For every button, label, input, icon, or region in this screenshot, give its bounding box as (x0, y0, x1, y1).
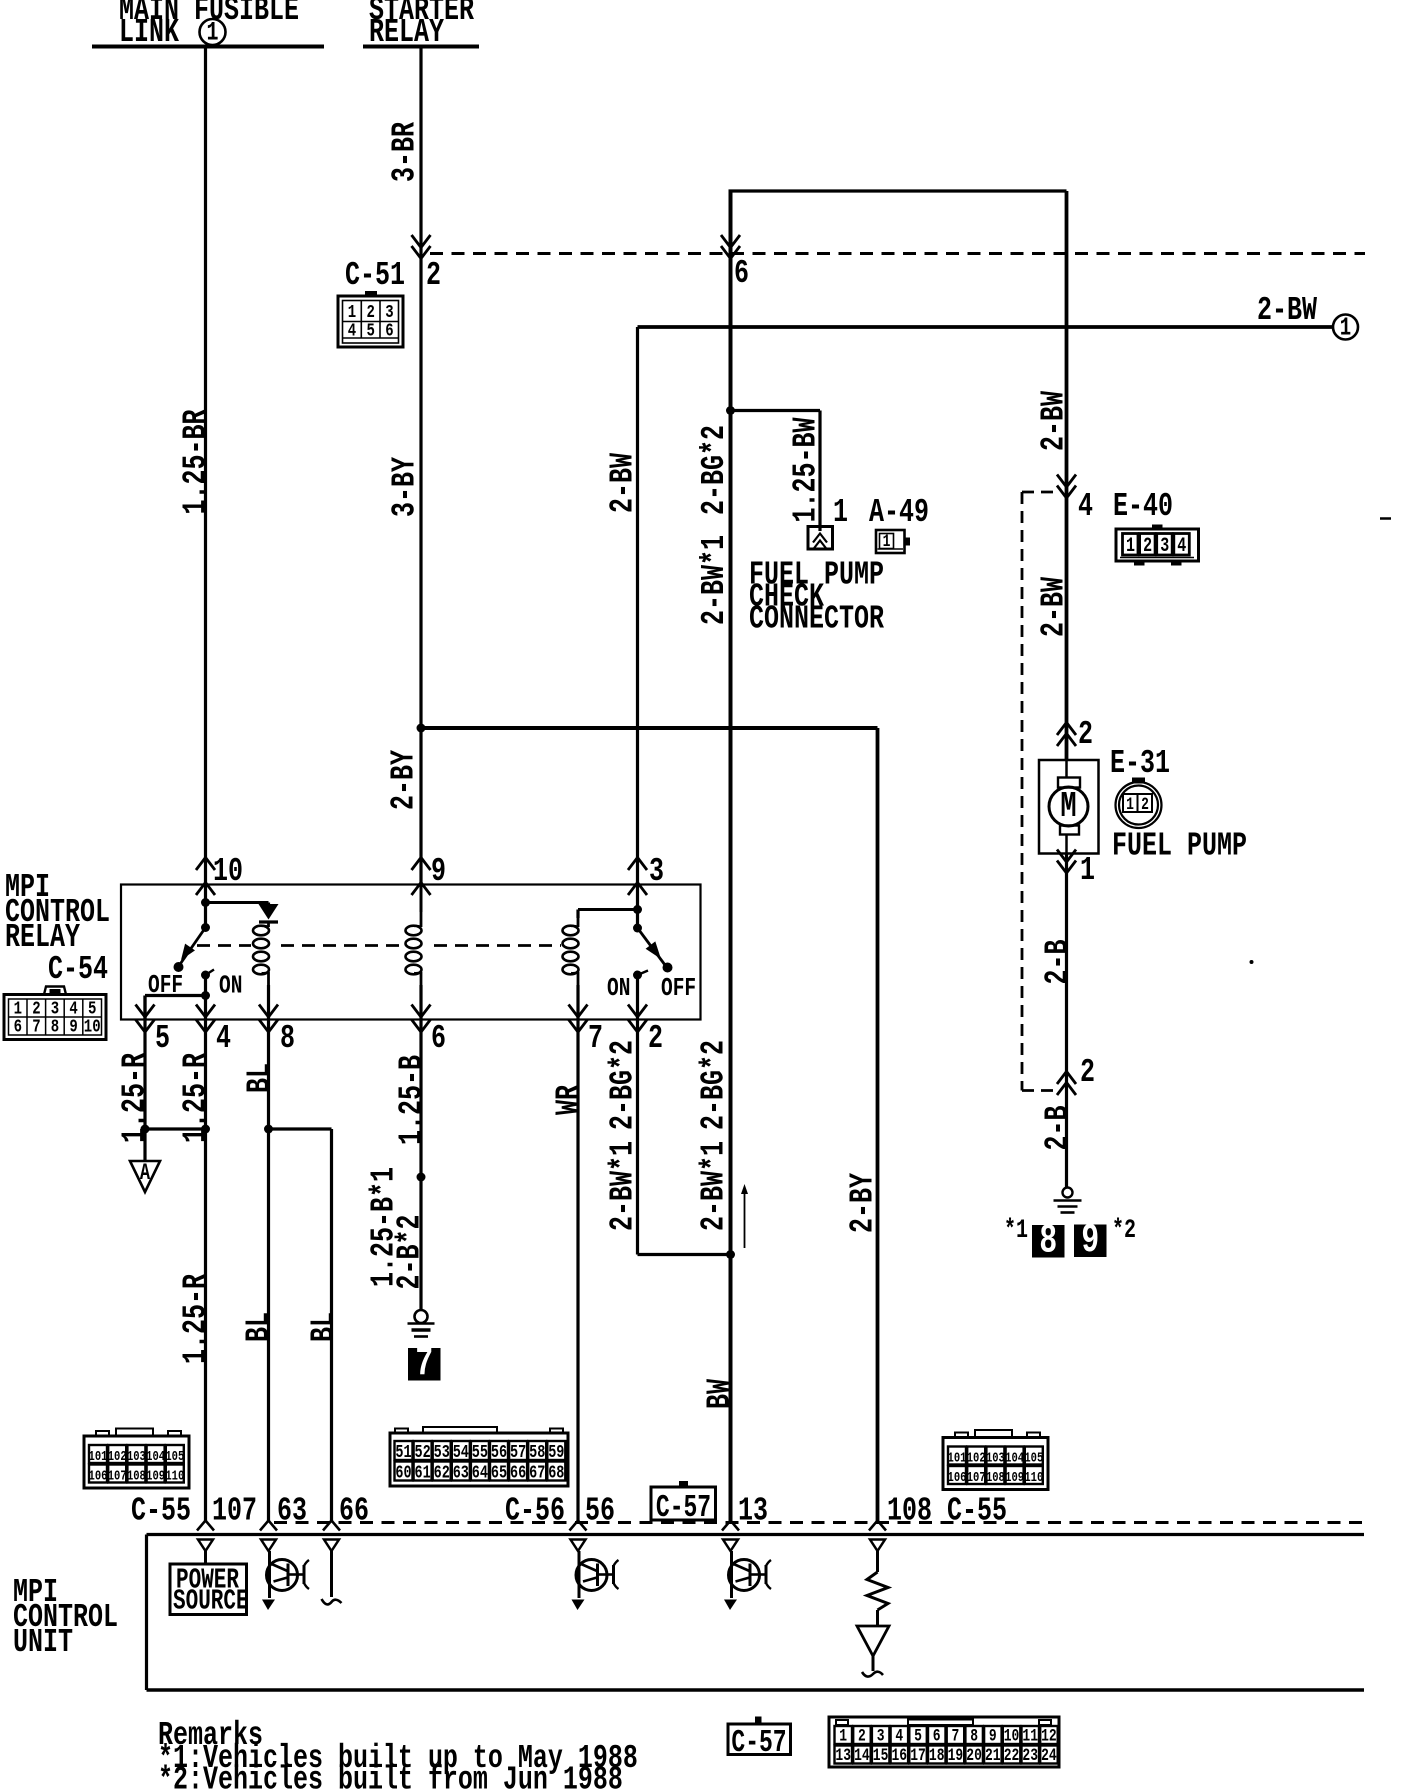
svg-text:17: 17 (910, 1745, 926, 1765)
svg-text:54: 54 (453, 1442, 470, 1462)
svg-text:104: 104 (1005, 1450, 1024, 1466)
svg-text:5: 5 (155, 1019, 170, 1058)
svg-text:4: 4 (1177, 535, 1186, 558)
svg-text:110: 110 (1024, 1470, 1043, 1486)
svg-text:C-57: C-57 (731, 1726, 786, 1761)
svg-text:BL: BL (239, 1312, 278, 1342)
svg-text:106: 106 (948, 1470, 967, 1486)
svg-text:C-56: C-56 (505, 1491, 565, 1530)
svg-text:3: 3 (649, 852, 664, 891)
svg-text:7: 7 (32, 1016, 40, 1038)
svg-text:7: 7 (415, 1340, 433, 1387)
svg-text:2-BG*2: 2-BG*2 (603, 1040, 642, 1130)
svg-text:108: 108 (887, 1491, 932, 1530)
svg-text:1: 1 (1126, 794, 1134, 814)
svg-text:WR: WR (549, 1085, 588, 1115)
svg-text:2-BG*2: 2-BG*2 (695, 425, 734, 515)
svg-text:8: 8 (970, 1726, 978, 1746)
svg-text:9: 9 (431, 852, 446, 891)
svg-text:6: 6 (734, 254, 749, 293)
svg-text:2: 2 (426, 256, 441, 295)
svg-text:63: 63 (453, 1463, 469, 1483)
svg-text:7: 7 (952, 1726, 960, 1746)
svg-text:105: 105 (1024, 1450, 1043, 1466)
svg-text:9: 9 (1081, 1217, 1099, 1264)
svg-text:104: 104 (146, 1449, 165, 1465)
svg-text:1: 1 (839, 1726, 847, 1746)
svg-text:1: 1 (1340, 313, 1351, 343)
svg-text:ON: ON (607, 973, 630, 1003)
svg-text:1: 1 (1126, 535, 1135, 558)
svg-text:9: 9 (69, 1016, 77, 1038)
svg-text:6: 6 (385, 320, 393, 342)
svg-text:*2: *2 (1112, 1215, 1136, 1246)
svg-text:A-49: A-49 (869, 493, 929, 532)
svg-text:60: 60 (395, 1463, 411, 1483)
svg-text:2-BW*1: 2-BW*1 (694, 1141, 733, 1231)
svg-text:C-51: C-51 (345, 256, 405, 295)
svg-text:2-BW: 2-BW (603, 453, 642, 513)
svg-text:56: 56 (491, 1442, 507, 1462)
svg-text:FUEL PUMP: FUEL PUMP (1112, 826, 1247, 865)
svg-text:2-B: 2-B (1038, 939, 1077, 984)
svg-text:102: 102 (108, 1449, 127, 1465)
svg-text:2-BW*1: 2-BW*1 (695, 535, 734, 625)
svg-text:1.25-B: 1.25-B (392, 1055, 431, 1145)
svg-text:59: 59 (548, 1442, 564, 1462)
svg-text:63: 63 (277, 1491, 307, 1530)
svg-text:61: 61 (415, 1463, 431, 1483)
svg-text:2: 2 (1143, 535, 1152, 558)
svg-text:1.25-R: 1.25-R (176, 1274, 215, 1364)
svg-text:1: 1 (1080, 851, 1095, 890)
svg-text:OFF: OFF (148, 970, 183, 1000)
svg-text:107: 107 (967, 1470, 986, 1486)
svg-text:16: 16 (892, 1745, 908, 1765)
svg-text:23: 23 (1022, 1745, 1038, 1765)
svg-text:13: 13 (738, 1491, 768, 1530)
svg-text:CONNECTOR: CONNECTOR (749, 599, 884, 638)
svg-text:2-B*2: 2-B*2 (390, 1215, 429, 1290)
svg-text:52: 52 (415, 1442, 431, 1462)
svg-text:68: 68 (548, 1463, 564, 1483)
svg-text:19: 19 (948, 1745, 964, 1765)
svg-text:53: 53 (434, 1442, 450, 1462)
svg-text:110: 110 (165, 1468, 184, 1484)
svg-text:109: 109 (1005, 1470, 1024, 1486)
svg-text:4: 4 (348, 320, 356, 342)
svg-text:2-BW: 2-BW (1257, 291, 1317, 330)
svg-text:C-55: C-55 (131, 1491, 191, 1530)
svg-text:2: 2 (858, 1726, 866, 1746)
svg-text:7: 7 (588, 1019, 603, 1058)
svg-text:109: 109 (146, 1468, 165, 1484)
svg-text:1.25-R: 1.25-R (176, 1053, 215, 1143)
svg-text:62: 62 (434, 1463, 450, 1483)
svg-text:107: 107 (108, 1468, 127, 1484)
svg-text:9: 9 (989, 1726, 997, 1746)
svg-text:4: 4 (1078, 487, 1093, 526)
svg-text:1.25-R: 1.25-R (115, 1053, 154, 1143)
svg-text:1.25-BR: 1.25-BR (176, 409, 215, 514)
svg-text:15: 15 (873, 1745, 889, 1765)
svg-text:2: 2 (648, 1019, 663, 1058)
svg-text:55: 55 (472, 1442, 488, 1462)
svg-text:SOURCE: SOURCE (173, 1586, 249, 1618)
svg-text:10: 10 (213, 852, 243, 891)
svg-text:103: 103 (127, 1449, 146, 1465)
svg-text:*1: *1 (1004, 1215, 1028, 1246)
svg-text:BW: BW (700, 1379, 739, 1409)
svg-text:6: 6 (933, 1726, 941, 1746)
svg-text:8: 8 (1039, 1217, 1057, 1264)
svg-text:1: 1 (833, 493, 848, 532)
svg-text:4: 4 (895, 1726, 903, 1746)
svg-text:*2:Vehicles built from Jun 198: *2:Vehicles built from Jun 1988 (158, 1760, 623, 1790)
svg-text:UNIT: UNIT (13, 1623, 73, 1662)
svg-text:24: 24 (1041, 1745, 1057, 1765)
svg-text:51: 51 (395, 1442, 411, 1462)
svg-text:1: 1 (206, 18, 218, 49)
svg-text:106: 106 (89, 1468, 108, 1484)
svg-text:2: 2 (1078, 715, 1093, 754)
svg-text:57: 57 (510, 1442, 526, 1462)
svg-text:20: 20 (966, 1745, 982, 1765)
svg-text:2-BW: 2-BW (1034, 577, 1073, 637)
svg-text:A: A (140, 1161, 151, 1187)
svg-text:OFF: OFF (661, 973, 696, 1003)
svg-text:3-BY: 3-BY (385, 457, 424, 517)
svg-text:11: 11 (1022, 1726, 1038, 1746)
svg-text:3: 3 (877, 1726, 885, 1746)
svg-text:56: 56 (585, 1491, 615, 1530)
svg-text:E-31: E-31 (1110, 744, 1170, 783)
svg-text:3-BR: 3-BR (385, 122, 424, 182)
svg-text:8: 8 (280, 1019, 295, 1058)
svg-text:13: 13 (835, 1745, 851, 1765)
svg-text:E-40: E-40 (1113, 487, 1173, 526)
svg-text:108: 108 (986, 1470, 1005, 1486)
svg-text:64: 64 (472, 1463, 489, 1483)
svg-text:107: 107 (212, 1491, 257, 1530)
svg-text:67: 67 (529, 1463, 545, 1483)
svg-text:8: 8 (51, 1016, 59, 1038)
svg-text:C-54: C-54 (48, 950, 108, 989)
svg-text:2: 2 (1141, 794, 1149, 814)
svg-text:2: 2 (1080, 1053, 1095, 1092)
svg-text:103: 103 (986, 1450, 1005, 1466)
svg-text:21: 21 (985, 1745, 1001, 1765)
svg-text:12: 12 (1041, 1726, 1057, 1746)
svg-text:1.25-BW: 1.25-BW (786, 417, 825, 522)
svg-text:2-B: 2-B (1038, 1105, 1077, 1150)
svg-text:2-BW*1: 2-BW*1 (603, 1141, 642, 1231)
svg-text:6: 6 (431, 1019, 446, 1058)
svg-text:102: 102 (967, 1450, 986, 1466)
svg-text:3: 3 (1160, 535, 1169, 558)
svg-text:22: 22 (1004, 1745, 1020, 1765)
svg-text:14: 14 (854, 1745, 870, 1765)
svg-text:105: 105 (165, 1449, 184, 1465)
svg-text:C-55: C-55 (947, 1491, 1007, 1530)
svg-text:M: M (1060, 785, 1076, 827)
svg-text:4: 4 (216, 1019, 231, 1058)
svg-text:ON: ON (219, 971, 242, 1001)
svg-text:18: 18 (929, 1745, 945, 1765)
svg-text:6: 6 (14, 1016, 22, 1038)
svg-text:C-57: C-57 (656, 1491, 711, 1526)
svg-text:5: 5 (366, 320, 374, 342)
svg-text:10: 10 (84, 1016, 101, 1038)
svg-text:2-BY: 2-BY (843, 1173, 882, 1233)
svg-text:65: 65 (491, 1463, 507, 1483)
svg-text:66: 66 (510, 1463, 526, 1483)
svg-text:2-BY: 2-BY (384, 750, 423, 810)
svg-text:58: 58 (529, 1442, 545, 1462)
svg-text:2-BW: 2-BW (1034, 391, 1073, 451)
svg-text:108: 108 (127, 1468, 146, 1484)
svg-text:101: 101 (89, 1449, 108, 1465)
svg-text:BL: BL (304, 1312, 343, 1342)
svg-text:BL: BL (240, 1063, 279, 1093)
svg-text:101: 101 (948, 1450, 967, 1466)
svg-text:66: 66 (339, 1491, 369, 1530)
svg-text:10: 10 (1004, 1726, 1020, 1746)
svg-text:2-BG*2: 2-BG*2 (694, 1040, 733, 1130)
svg-text:5: 5 (914, 1726, 922, 1746)
